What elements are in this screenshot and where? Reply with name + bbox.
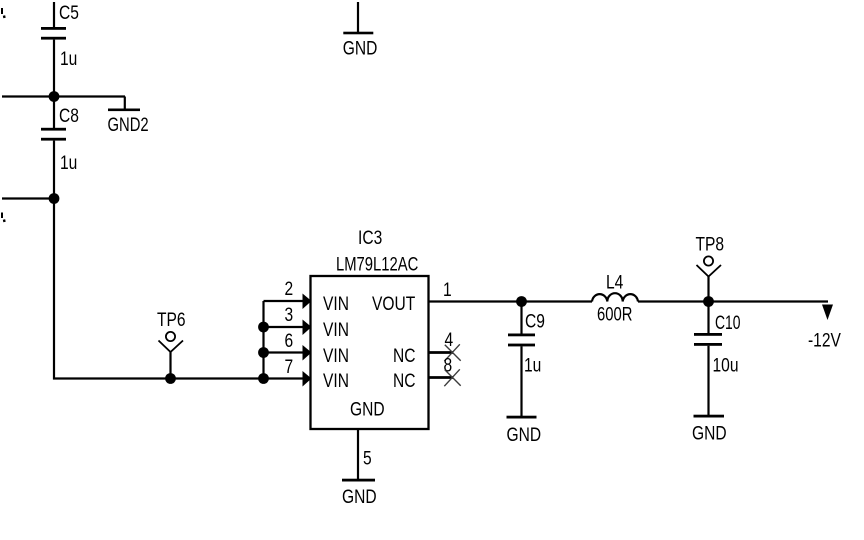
pin 8 stub NC [429, 376, 454, 379]
svg-text:3: 3 [285, 303, 294, 325]
junction node C10 [703, 296, 714, 307]
svg-text:NC: NC [393, 369, 415, 391]
svg-text:1: 1 [443, 278, 452, 300]
wire L4 to arrow [638, 300, 828, 302]
svg-text:10u: 10u [713, 354, 739, 376]
svg-text:VOUT: VOUT [372, 292, 416, 314]
wire pin1 junction to L4 [522, 300, 593, 302]
svg-text:4: 4 [445, 328, 454, 350]
svg-text:L4: L4 [606, 271, 624, 293]
junction node C5/C8 [49, 91, 60, 102]
test point TP8 [697, 256, 722, 301]
ground pin5 bar [342, 479, 375, 482]
junction node C8 bottom [49, 193, 60, 204]
svg-text:C5: C5 [59, 1, 79, 23]
svg-text:GND2: GND2 [108, 114, 149, 135]
ground C10 bar [694, 415, 725, 418]
wire pin3 [264, 326, 304, 328]
wire pin2 [264, 300, 304, 302]
svg-text:7: 7 [285, 355, 294, 377]
svg-text:TP8: TP8 [696, 233, 725, 255]
pin 2 arrow [303, 294, 312, 310]
svg-text:1u: 1u [524, 354, 541, 376]
junction node C9 [516, 296, 527, 307]
svg-text:1u: 1u [60, 151, 77, 173]
wire input bus vertical [262, 301, 264, 379]
pin 7 arrow [303, 371, 312, 387]
test point TP6 [159, 332, 184, 379]
wire left horizontal at y198 [2, 197, 54, 199]
svg-text:VIN: VIN [323, 318, 349, 340]
ground C9 bar [507, 416, 537, 419]
svg-text:LM79L12AC: LM79L12AC [336, 254, 418, 275]
svg-text:600R: 600R [597, 304, 632, 325]
IC3 box outline [311, 276, 429, 429]
svg-text:GND: GND [507, 423, 542, 445]
svg-text:TP6: TP6 [157, 308, 186, 330]
svg-text:6: 6 [285, 329, 294, 351]
wire pin1 VOUT [429, 300, 522, 302]
pin 4 stub NC [429, 351, 454, 354]
capacitor C9 [508, 302, 535, 418]
junction node TP6 [165, 373, 176, 384]
pin 3 arrow [303, 320, 312, 336]
wire pin6 [264, 351, 304, 353]
svg-text:5: 5 [363, 447, 372, 469]
capacitor C10 [694, 302, 722, 417]
svg-text:VIN: VIN [323, 292, 349, 314]
svg-text:C10: C10 [715, 312, 740, 334]
capacitor C5 [41, 2, 66, 97]
svg-text:2: 2 [285, 277, 294, 299]
inductor L4 [592, 293, 638, 301]
pin 6 arrow [303, 345, 312, 361]
svg-text:IC3: IC3 [358, 226, 382, 248]
svg-text:VIN: VIN [323, 344, 349, 366]
svg-text:NC: NC [393, 344, 415, 366]
svg-text:GND: GND [343, 37, 378, 59]
NC cross pin4 [444, 344, 460, 361]
capacitor C8 [41, 97, 66, 199]
clipped mark mid-left [2, 213, 5, 223]
ground GND2 [108, 97, 140, 112]
svg-text:GND: GND [342, 485, 377, 507]
svg-text:1u: 1u [60, 47, 77, 69]
junction node pin3 [258, 322, 269, 333]
wire left vertical down and across to pin7 [54, 199, 303, 379]
wire top-left horizontal to GND2 [2, 95, 125, 97]
junction node pin7 [258, 373, 269, 384]
NC cross pin8 [444, 369, 460, 386]
svg-text:GND: GND [350, 398, 385, 420]
ground top middle [343, 2, 373, 34]
svg-text:GND: GND [692, 422, 727, 444]
svg-text:-12V: -12V [808, 329, 841, 351]
svg-text:C8: C8 [59, 104, 79, 126]
svg-text:VIN: VIN [323, 369, 349, 391]
junction node pin6 [258, 347, 269, 358]
clipped mark top-left [2, 8, 5, 18]
pin 5 stem [357, 429, 359, 480]
svg-text:C9: C9 [525, 310, 545, 332]
supply arrow -12V [822, 305, 833, 321]
